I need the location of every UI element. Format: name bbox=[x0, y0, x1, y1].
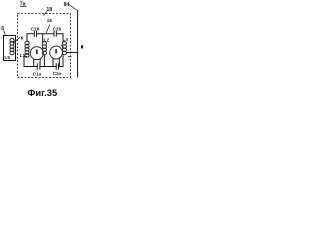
leader from 16 bbox=[46, 25, 50, 34]
coupling arrow into L5 bbox=[13, 37, 20, 43]
capacitor C2b bbox=[54, 31, 56, 37]
tap wire from L3 bbox=[66, 51, 77, 53]
crystal 1 legs bbox=[34, 59, 40, 67]
svg-text:L3: L3 bbox=[62, 37, 68, 43]
svg-text:16: 16 bbox=[47, 18, 53, 23]
coupling arrow into L3 bbox=[61, 45, 64, 47]
inductor L5 coil bbox=[10, 38, 14, 54]
leader from 6 bbox=[4, 30, 6, 35]
svg-text:Фиг.35: Фиг.35 bbox=[27, 87, 57, 98]
junction dot bbox=[77, 52, 79, 54]
inductor L1 coil bbox=[25, 41, 29, 57]
svg-text:C2a: C2a bbox=[53, 71, 62, 76]
label 84 bbox=[64, 2, 70, 8]
leader from 84 bbox=[69, 5, 77, 10]
label L1 bbox=[20, 53, 26, 59]
capacitor C1b bbox=[34, 31, 36, 37]
node numeral 6 inside box edge bbox=[21, 35, 24, 41]
dashed enclosure box bbox=[18, 14, 71, 78]
external output line bbox=[77, 10, 79, 77]
label 6 bbox=[1, 26, 4, 32]
leader from 18 bbox=[43, 11, 47, 15]
antenna box (left solid box) bbox=[4, 36, 16, 61]
svg-text:C1b: C1b bbox=[31, 26, 40, 31]
label 7a bbox=[20, 2, 26, 8]
svg-text:6: 6 bbox=[21, 35, 24, 41]
crystal resonator 2 circle bbox=[50, 46, 63, 59]
crystal 2 legs bbox=[53, 58, 59, 67]
label 18 bbox=[46, 7, 52, 13]
svg-text:L1: L1 bbox=[20, 53, 26, 59]
svg-text:C2b: C2b bbox=[53, 26, 62, 31]
svg-text:84: 84 bbox=[64, 2, 70, 8]
label 16 bbox=[47, 18, 53, 23]
svg-text:18: 18 bbox=[46, 7, 52, 13]
inductor L2 coil bbox=[42, 42, 46, 55]
svg-text:L5: L5 bbox=[4, 55, 10, 61]
svg-text:C1a: C1a bbox=[33, 72, 42, 77]
crystal 2 plate bbox=[55, 49, 57, 53]
crystal 1 plate bbox=[36, 50, 38, 54]
capacitor C2a bbox=[56, 63, 58, 70]
crystal resonator 1 circle bbox=[30, 47, 43, 60]
small tap mark bbox=[68, 56, 71, 58]
label L2 bbox=[44, 37, 50, 43]
caption bbox=[27, 87, 57, 98]
underline of 7a bbox=[20, 6, 27, 8]
bottom coupling wire bbox=[24, 55, 63, 67]
inductor L3 coil bbox=[62, 42, 66, 55]
label L5 bbox=[4, 55, 10, 61]
capacitor C1a bbox=[37, 63, 40, 70]
top coupling wire bbox=[27, 34, 63, 42]
svg-text:L2: L2 bbox=[44, 37, 50, 43]
label L3 bbox=[62, 37, 68, 43]
terminal square bbox=[81, 45, 83, 48]
